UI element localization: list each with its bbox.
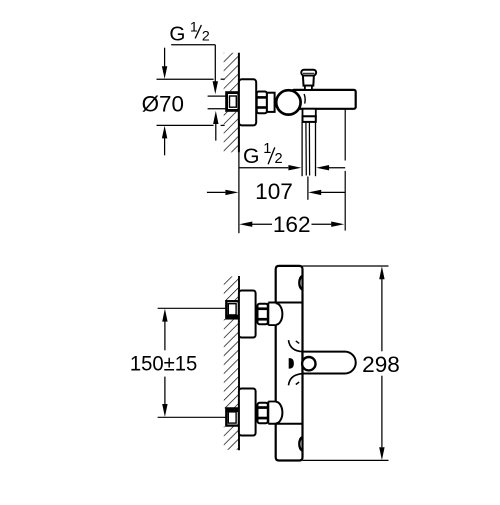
body cap separation line lower [268, 423, 302, 425]
107 dimension right arrow [308, 190, 321, 195]
svg-text:107: 107 [255, 179, 293, 204]
upper knob indent [299, 276, 302, 289]
square union nut in wall [227, 93, 239, 111]
G 1/2 lower dimension line left [239, 167, 288, 169]
hex connection nut (side view) [257, 92, 267, 114]
G 1/2 top arrow up (from below pipe) [213, 111, 218, 124]
lower hex union nut [258, 403, 268, 424]
O70 dimension arrow top [164, 48, 166, 68]
mixer body outline (plan, left edge interrupted at bosses) [276, 266, 303, 461]
wall face line (thick) [238, 53, 240, 153]
body right edge across spout root [301, 352, 303, 374]
svg-text:162: 162 [273, 212, 311, 237]
298 extension line top [303, 265, 389, 267]
mixer body (plan) white fill [276, 266, 303, 461]
svg-text:2: 2 [275, 151, 283, 167]
svg-text:150±15: 150±15 [130, 351, 198, 375]
svg-text:G: G [169, 22, 185, 45]
diverter knob stem [303, 75, 314, 85]
wall hatching segment 2 [224, 319, 239, 408]
G 1/2 top arrow down (to pipe top) [213, 81, 218, 94]
wall hatching segment 1 [224, 276, 239, 300]
svg-text:298: 298 [362, 352, 400, 377]
upper supply stub / 150 extension line [158, 307, 227, 309]
connector sleeve [267, 93, 275, 112]
diverter knob collar [305, 86, 312, 90]
lower supply stub / 150 extension line [158, 416, 227, 418]
298 dimension line [379, 266, 384, 279]
lower knob indent [299, 437, 302, 450]
bath spout (plan, stadium shape) [303, 352, 356, 374]
spout upper fillet [289, 340, 303, 352]
escutcheon extension line bottom (O70 bottom) [157, 124, 214, 126]
svg-text:Ø70: Ø70 [142, 91, 184, 116]
wall face line [238, 276, 240, 450]
svg-text:G: G [243, 145, 259, 168]
wall hatching segment 3 [224, 426, 239, 449]
svg-text:1: 1 [263, 141, 271, 157]
shower outlet block under body [303, 109, 316, 117]
wall hatching lower part [224, 112, 239, 153]
diverter knob cap [301, 70, 316, 76]
upper escutcheon (plan) [239, 291, 256, 338]
svg-text:1: 1 [190, 20, 198, 36]
O70 dimension arrow bottom [164, 138, 166, 155]
lower inlet boss [267, 401, 269, 423]
107 dimension left arrow [207, 191, 226, 193]
upper square union nut [226, 301, 239, 318]
diverter knob (plan, circle) [302, 357, 315, 370]
150 +/- 15 dimension line [162, 309, 167, 322]
shower pipe centerline [307, 177, 309, 200]
escutcheon extension line top (O70 top) [157, 78, 214, 80]
upper hex union nut [258, 304, 268, 325]
spout end extension line (for 162) [344, 109, 346, 161]
upper inlet boss [267, 303, 269, 326]
thermostat knob (ball, side view) [276, 90, 300, 114]
escutcheon (side view) [239, 79, 256, 125]
logo mark (filled D) [289, 358, 294, 369]
body cap separation line upper [268, 302, 302, 304]
lower square union nut [226, 408, 239, 425]
G 1/2 lower dimension line right [316, 165, 329, 170]
shower pipe outer lines [301, 122, 303, 176]
spout lower fillet [289, 374, 303, 386]
ball/body intersection arc [304, 94, 305, 104]
shower pipe inner lines [305, 122, 307, 176]
lower escutcheon (plan) [239, 389, 256, 436]
298 extension line bottom [303, 459, 389, 461]
shower outlet band [303, 116, 316, 122]
G 1/2 top leader line [171, 44, 215, 46]
mixer body tube (side view) [292, 90, 356, 109]
wall hatching upper part [224, 53, 239, 91]
svg-text:2: 2 [202, 29, 210, 45]
supply pipe through wall (two lines) [208, 95, 227, 97]
wall extension line (thin, down to 162 dimension) [238, 152, 240, 233]
162 dimension line [239, 222, 252, 227]
